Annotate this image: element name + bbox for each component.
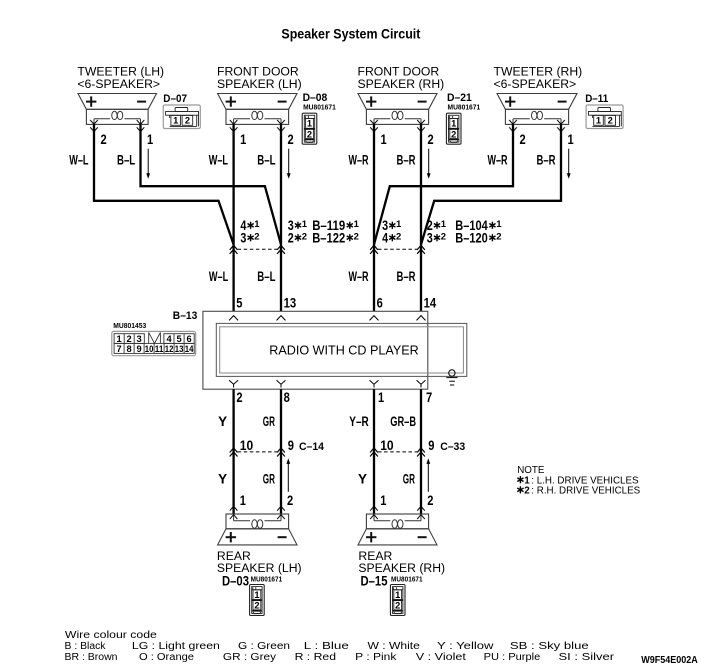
svg-text:B–L: B–L [117,153,135,168]
svg-text:D–07: D–07 [163,93,187,105]
svg-text:1: 1 [378,390,385,405]
note block [517,465,640,497]
svg-text:1: 1 [240,493,247,508]
junction C-14 pin labels [240,438,325,453]
svg-text:W9F54E002A: W9F54E002A [641,655,698,666]
svg-text:PU : Purple: PU : Purple [484,652,541,663]
junction C-33 chevrons [370,448,425,457]
svg-text:1: 1 [568,132,575,147]
connector D-07 [163,93,187,105]
svg-text:2: 2 [302,231,307,242]
wire B-R front door RH to radio pin14 [420,124,422,311]
svg-text:14: 14 [424,295,437,310]
svg-text:GR: GR [263,414,275,429]
svg-text:B–L: B–L [257,269,275,284]
svg-text:1: 1 [395,590,400,600]
svg-text:B : Black: B : Black [65,641,106,652]
svg-text:2: 2 [127,334,132,344]
svg-text:2: 2 [396,231,401,242]
wire colour code [65,630,616,663]
svg-text:5: 5 [236,295,243,310]
label front door speaker RH [358,65,445,92]
svg-text:8: 8 [127,344,132,354]
wire W-R front door RH to radio pin6 [373,124,375,311]
pin numbers tweeter LH [101,132,154,147]
svg-text:<6-SPEAKER>: <6-SPEAKER> [77,77,160,91]
svg-text:1: 1 [147,132,154,147]
wire B-L tweeter LH to junction [141,124,282,244]
svg-text:C–33: C–33 [440,441,465,453]
svg-text:2: 2 [254,231,259,242]
junction B-104/B-120 pin labels [382,218,447,245]
svg-text:B–R: B–R [397,269,416,284]
svg-text:1: 1 [254,590,259,600]
continuation arrow tweeter LH pin1 [147,149,149,175]
junction B-119/B-122 pin labels [240,218,307,245]
svg-text:1: 1 [354,219,360,230]
speaker tweeter LH [78,94,157,132]
connector B-13 label [113,310,197,330]
svg-text:R : Red: R : Red [295,652,336,663]
wire labels below radio [218,414,416,429]
svg-text:2: 2 [287,493,293,508]
svg-text:9: 9 [288,438,294,453]
wire Y radio pin2 to rear speaker LH [232,389,234,514]
svg-text:1: 1 [307,119,312,129]
svg-text:7: 7 [117,344,122,354]
svg-text:11: 11 [155,344,164,354]
svg-text:LG : Light green: LG : Light green [132,641,220,652]
svg-text:2: 2 [524,486,530,497]
svg-text:2: 2 [427,493,433,508]
svg-text:Wire colour code: Wire colour code [65,630,158,641]
svg-text:2: 2 [441,231,446,242]
svg-text:2: 2 [520,132,526,147]
svg-text:W–L: W–L [209,153,228,168]
svg-text:2: 2 [185,116,190,126]
pin numbers front door LH [240,132,294,147]
label rear speaker LH [217,549,302,575]
svg-text:2: 2 [288,132,294,147]
continuation arrow C-14 pin9 [287,463,289,492]
svg-text:9: 9 [428,438,434,453]
radio top pin numbers 5 13 6 14 [236,295,436,310]
svg-text:Y: Y [218,471,227,486]
svg-text:2: 2 [288,231,294,246]
svg-text:SB : Sky blue: SB : Sky blue [510,641,590,652]
svg-text:2: 2 [101,132,107,147]
svg-text:W–L: W–L [209,269,228,284]
ground G1 [446,370,457,385]
svg-text:MU801671: MU801671 [303,102,336,111]
label tweeter RH [494,65,583,92]
svg-text:MU801453: MU801453 [113,321,146,330]
svg-text:1: 1 [302,219,308,230]
svg-text:1: 1 [117,334,122,344]
svg-text:B–13: B–13 [173,310,198,322]
svg-text:: R.H. DRIVE VEHICLES: : R.H. DRIVE VEHICLES [531,486,640,497]
wire GR radio pin8 to rear speaker LH [280,389,282,514]
svg-text:G : Green: G : Green [238,641,290,652]
svg-text:W : White: W : White [368,641,421,652]
svg-text:1: 1 [396,219,402,230]
radio bottom pin numbers 2 8 1 7 [236,390,432,405]
svg-text:2: 2 [236,390,242,405]
svg-text:3: 3 [427,231,433,246]
connector D-08 MU801671 [303,92,336,112]
wire labels top row [69,153,555,168]
svg-text:B–122: B–122 [312,231,345,246]
svg-text:W–R: W–R [349,153,369,168]
svg-text:2: 2 [307,129,312,139]
svg-text:B–R: B–R [537,153,556,168]
junction name B-119/B-122 [312,218,359,245]
radio connector terminals top [229,316,425,321]
svg-text:D–15: D–15 [361,573,388,588]
svg-text:3: 3 [137,334,142,344]
svg-text:1: 1 [254,219,260,230]
speaker rear RH [358,506,437,545]
svg-text:4: 4 [167,334,173,344]
continuation arrow tweeter RH pin1 [568,149,570,175]
svg-text:GR: GR [263,471,275,486]
svg-text:<6-SPEAKER>: <6-SPEAKER> [494,77,577,91]
svg-text:P : Pink: P : Pink [355,652,396,663]
svg-text:Speaker System Circuit: Speaker System Circuit [281,26,420,42]
continuation arrow C-33 pin9 [427,463,429,492]
connector D-15 MU801671 [361,573,423,588]
svg-text:1: 1 [240,132,247,147]
junction name B-104/B-120 [455,218,502,245]
svg-text:8: 8 [284,390,291,405]
svg-text:SPEAKER (LH): SPEAKER (LH) [217,77,302,91]
svg-text:2: 2 [496,231,501,242]
svg-text:W–L: W–L [69,153,88,168]
svg-text:9: 9 [137,344,142,354]
svg-text:V : Violet: V : Violet [416,652,466,663]
svg-text:4: 4 [382,231,388,246]
label rear speaker RH [358,549,445,575]
rear speaker RH pin numbers [380,493,433,508]
wire W-L front door LH to radio pin5 [232,124,234,311]
svg-text:O : Orange: O : Orange [139,652,195,663]
svg-text:2: 2 [354,231,359,242]
junction C-14 chevrons [230,448,285,457]
svg-text:MU801671: MU801671 [448,102,481,111]
speaker front door LH [218,94,297,132]
label front door speaker LH [217,65,302,92]
continuation arrow front door LH pin2 [288,149,290,175]
svg-text:Y : Yellow: Y : Yellow [437,641,495,652]
svg-text:2: 2 [428,132,434,147]
svg-text:MU801671: MU801671 [251,575,283,584]
svg-text:Y: Y [358,471,367,486]
svg-text:1: 1 [441,219,447,230]
svg-text:1: 1 [596,116,601,126]
wire Y-R radio pin1 to rear speaker RH [373,389,375,514]
svg-text:W–R: W–R [349,269,369,284]
svg-text:7: 7 [426,390,432,405]
wire B-L front door LH to radio pin13 [280,124,282,311]
junction B-119/B-122 chevrons [230,245,285,254]
label tweeter LH [77,65,164,92]
speaker front door RH [358,94,437,132]
wire B-R tweeter RH to junction [421,124,561,244]
svg-text:13: 13 [284,295,297,310]
svg-text:W–R: W–R [488,153,508,168]
svg-text:SPEAKER (RH): SPEAKER (RH) [358,77,445,91]
svg-text:D–03: D–03 [222,573,249,588]
svg-text:1: 1 [496,219,502,230]
wire W-R tweeter RH to junction [374,124,513,244]
pin numbers front door RH [381,132,434,147]
junction C-33 pin labels [380,438,465,453]
svg-text:NOTE: NOTE [517,465,545,476]
connector B-13 pin grid [112,331,196,355]
rear speaker LH pin numbers [240,493,293,508]
svg-text:1: 1 [173,116,178,126]
svg-text:SI : Silver: SI : Silver [559,652,616,663]
radio connector terminals bottom [229,380,425,387]
connector D-21 MU801671 [447,92,480,112]
svg-text:RADIO WITH CD PLAYER: RADIO WITH CD PLAYER [269,342,419,357]
wire labels above rear speakers [218,471,415,486]
svg-text:B–L: B–L [257,153,275,168]
svg-text:2: 2 [395,601,400,611]
svg-text:BR : Brown: BR : Brown [65,652,118,663]
speaker rear LH [218,506,297,545]
svg-text:GR : Grey: GR : Grey [223,652,276,663]
svg-text:12: 12 [165,344,174,354]
junction B-104/B-120 chevrons [370,245,425,254]
svg-text:2: 2 [608,116,613,126]
svg-text:GR–B: GR–B [390,414,416,429]
svg-text:5: 5 [177,334,182,344]
connector D-03 MU801671 [222,573,282,588]
svg-text:Y: Y [218,414,227,429]
svg-text:GR: GR [403,471,415,486]
wire labels mid row [209,269,416,284]
svg-text:B–120: B–120 [455,231,488,246]
svg-text:3: 3 [240,231,246,246]
speaker tweeter RH [497,94,577,132]
svg-text:6: 6 [187,334,192,344]
connector D-11 [585,93,608,105]
svg-text:10: 10 [380,438,393,453]
svg-text:C–14: C–14 [299,441,325,453]
svg-text:6: 6 [377,295,384,310]
svg-text:2: 2 [254,601,259,611]
svg-text:Y–R: Y–R [349,414,369,429]
radio component box [216,323,466,376]
svg-text:1: 1 [381,132,388,147]
svg-text:14: 14 [185,344,194,354]
svg-text:D–11: D–11 [585,93,608,105]
svg-text:B–R: B–R [397,153,416,168]
continuation arrow front door RH pin2 [428,149,430,175]
wire GR-B radio pin7 to rear speaker RH [420,389,422,514]
svg-text:1: 1 [451,119,456,129]
svg-text:10: 10 [240,438,253,453]
svg-text:L : Blue: L : Blue [304,641,350,652]
svg-text:10: 10 [145,344,154,354]
radio outer box [203,311,428,389]
svg-text:MU801671: MU801671 [391,575,423,584]
svg-text:1: 1 [380,493,387,508]
svg-text:2: 2 [451,129,456,139]
wire W-L tweeter LH to junction [94,124,234,244]
svg-text:13: 13 [175,344,184,354]
pin numbers tweeter RH [520,132,575,147]
